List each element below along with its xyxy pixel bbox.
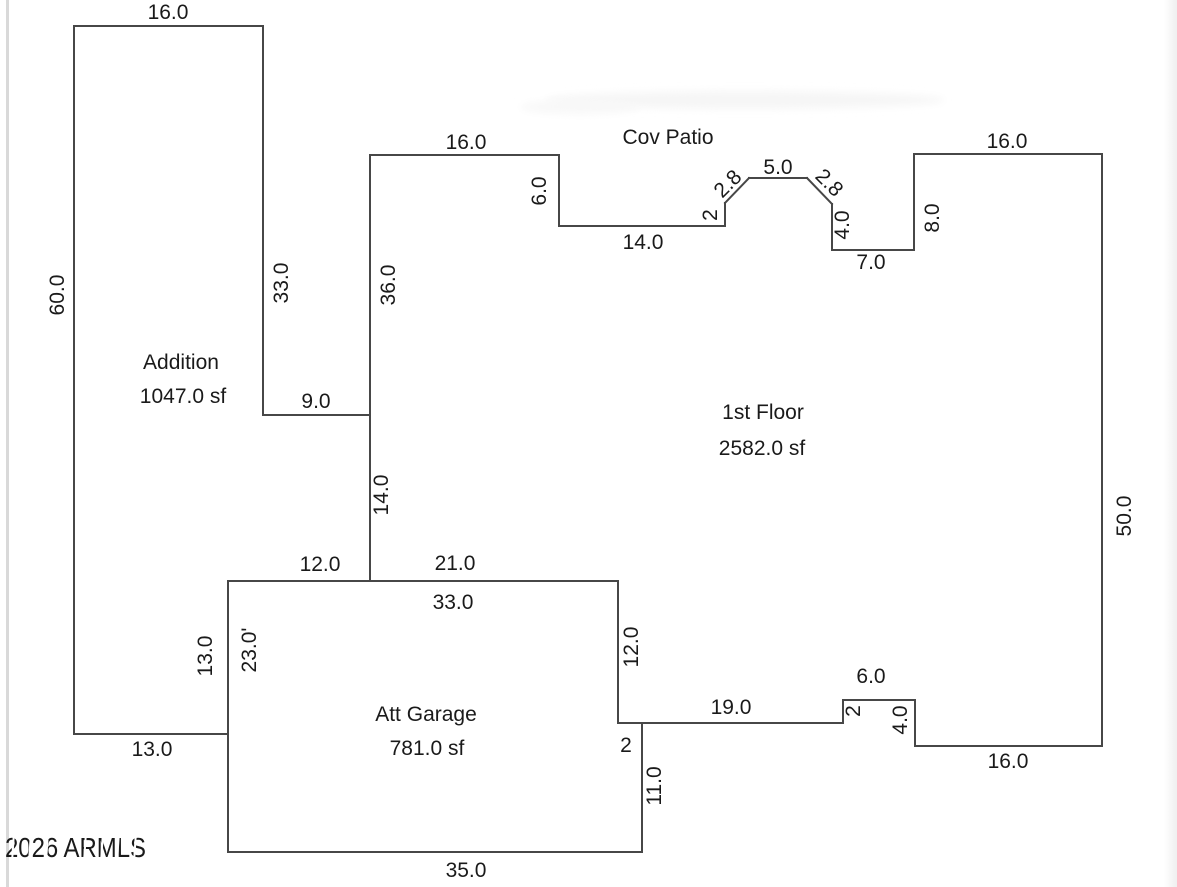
svg-text:13.0: 13.0: [194, 636, 217, 677]
svg-text:13.0: 13.0: [132, 738, 173, 761]
wall garage left: [227, 581, 229, 852]
svg-text:12.0: 12.0: [300, 553, 341, 576]
watermark 2026 ARMLS: [5, 832, 146, 863]
svg-text:2: 2: [620, 734, 632, 757]
svg-text:14.0: 14.0: [623, 231, 664, 254]
wall patio drop 6.0: [558, 155, 560, 226]
svg-text:19.0: 19.0: [711, 696, 752, 719]
wall first floor top right: [914, 153, 1102, 155]
svg-text:6.0: 6.0: [528, 176, 551, 205]
wall addition left: [73, 26, 75, 734]
svg-text:14.0: 14.0: [370, 475, 393, 516]
svg-text:36.0: 36.0: [377, 265, 400, 306]
wall addition top: [74, 25, 263, 27]
wall garage right upper 12.0: [617, 581, 619, 723]
wall first floor left: [369, 155, 371, 581]
wall patio 2 up: [724, 203, 726, 226]
svg-text:16.0: 16.0: [148, 1, 189, 24]
svg-text:33.0: 33.0: [270, 263, 293, 304]
svg-text:16.0: 16.0: [446, 131, 487, 154]
faint smudge top: [545, 91, 945, 109]
svg-text:60.0: 60.0: [46, 275, 69, 316]
svg-text:Cov Patio: Cov Patio: [622, 126, 713, 149]
svg-text:50.0: 50.0: [1113, 496, 1136, 537]
svg-text:4.0: 4.0: [889, 705, 912, 734]
faint smudge top small: [520, 100, 640, 114]
wall addition bottom: [74, 733, 228, 735]
svg-text:9.0: 9.0: [301, 390, 330, 413]
svg-text:2: 2: [699, 209, 722, 221]
svg-text:2026 ARMLS: 2026 ARMLS: [5, 832, 146, 863]
scan edge right band: [1164, 0, 1177, 887]
wall step 6.0: [843, 699, 915, 701]
wall patio diagonal left: [725, 178, 749, 203]
svg-text:33.0: 33.0: [433, 591, 474, 614]
svg-text:23.0': 23.0': [238, 628, 261, 673]
svg-text:781.0 sf: 781.0 sf: [390, 737, 465, 760]
wall patio diagonal right: [807, 178, 832, 204]
wall addition right: [262, 26, 264, 415]
svg-text:12.0: 12.0: [620, 627, 643, 668]
svg-text:35.0: 35.0: [446, 859, 487, 882]
svg-text:16.0: 16.0: [988, 750, 1029, 773]
svg-text:1047.0 sf: 1047.0 sf: [140, 385, 227, 408]
scan edge line: [6, 0, 9, 887]
svg-text:Addition: Addition: [143, 351, 219, 374]
wall patio 14.0: [559, 225, 725, 227]
svg-text:8.0: 8.0: [921, 203, 944, 232]
wall bottom right 16.0: [915, 745, 1102, 747]
svg-text:16.0: 16.0: [987, 130, 1028, 153]
wall patio 4.0 down: [831, 204, 833, 250]
wall patio 5.0: [749, 177, 807, 179]
svg-text:2.8: 2.8: [811, 165, 848, 202]
wall garage right lower 11.0: [641, 723, 643, 852]
wall garage top: [228, 580, 618, 582]
wall first floor right 50.0: [1101, 154, 1103, 746]
wall step 4.0: [914, 700, 916, 746]
svg-text:11.0: 11.0: [643, 766, 666, 805]
wall patio 7.0: [832, 249, 914, 251]
wall garage bottom: [228, 851, 642, 853]
svg-text:4.0: 4.0: [831, 210, 854, 239]
svg-text:5.0: 5.0: [763, 156, 792, 179]
svg-text:21.0: 21.0: [435, 552, 476, 575]
svg-text:1st Floor: 1st Floor: [722, 401, 804, 424]
svg-text:6.0: 6.0: [856, 665, 885, 688]
svg-text:7.0: 7.0: [856, 251, 885, 274]
wall patio 8.0 up: [913, 154, 915, 250]
wall step 2 down: [842, 700, 844, 723]
svg-text:2582.0 sf: 2582.0 sf: [719, 437, 806, 460]
svg-text:2: 2: [842, 705, 865, 717]
svg-text:2.8: 2.8: [710, 166, 747, 203]
wall 9.0 step: [263, 414, 370, 416]
wall 19.0: [618, 722, 843, 724]
svg-text:Att Garage: Att Garage: [375, 703, 477, 726]
wall first floor top left: [370, 154, 559, 156]
